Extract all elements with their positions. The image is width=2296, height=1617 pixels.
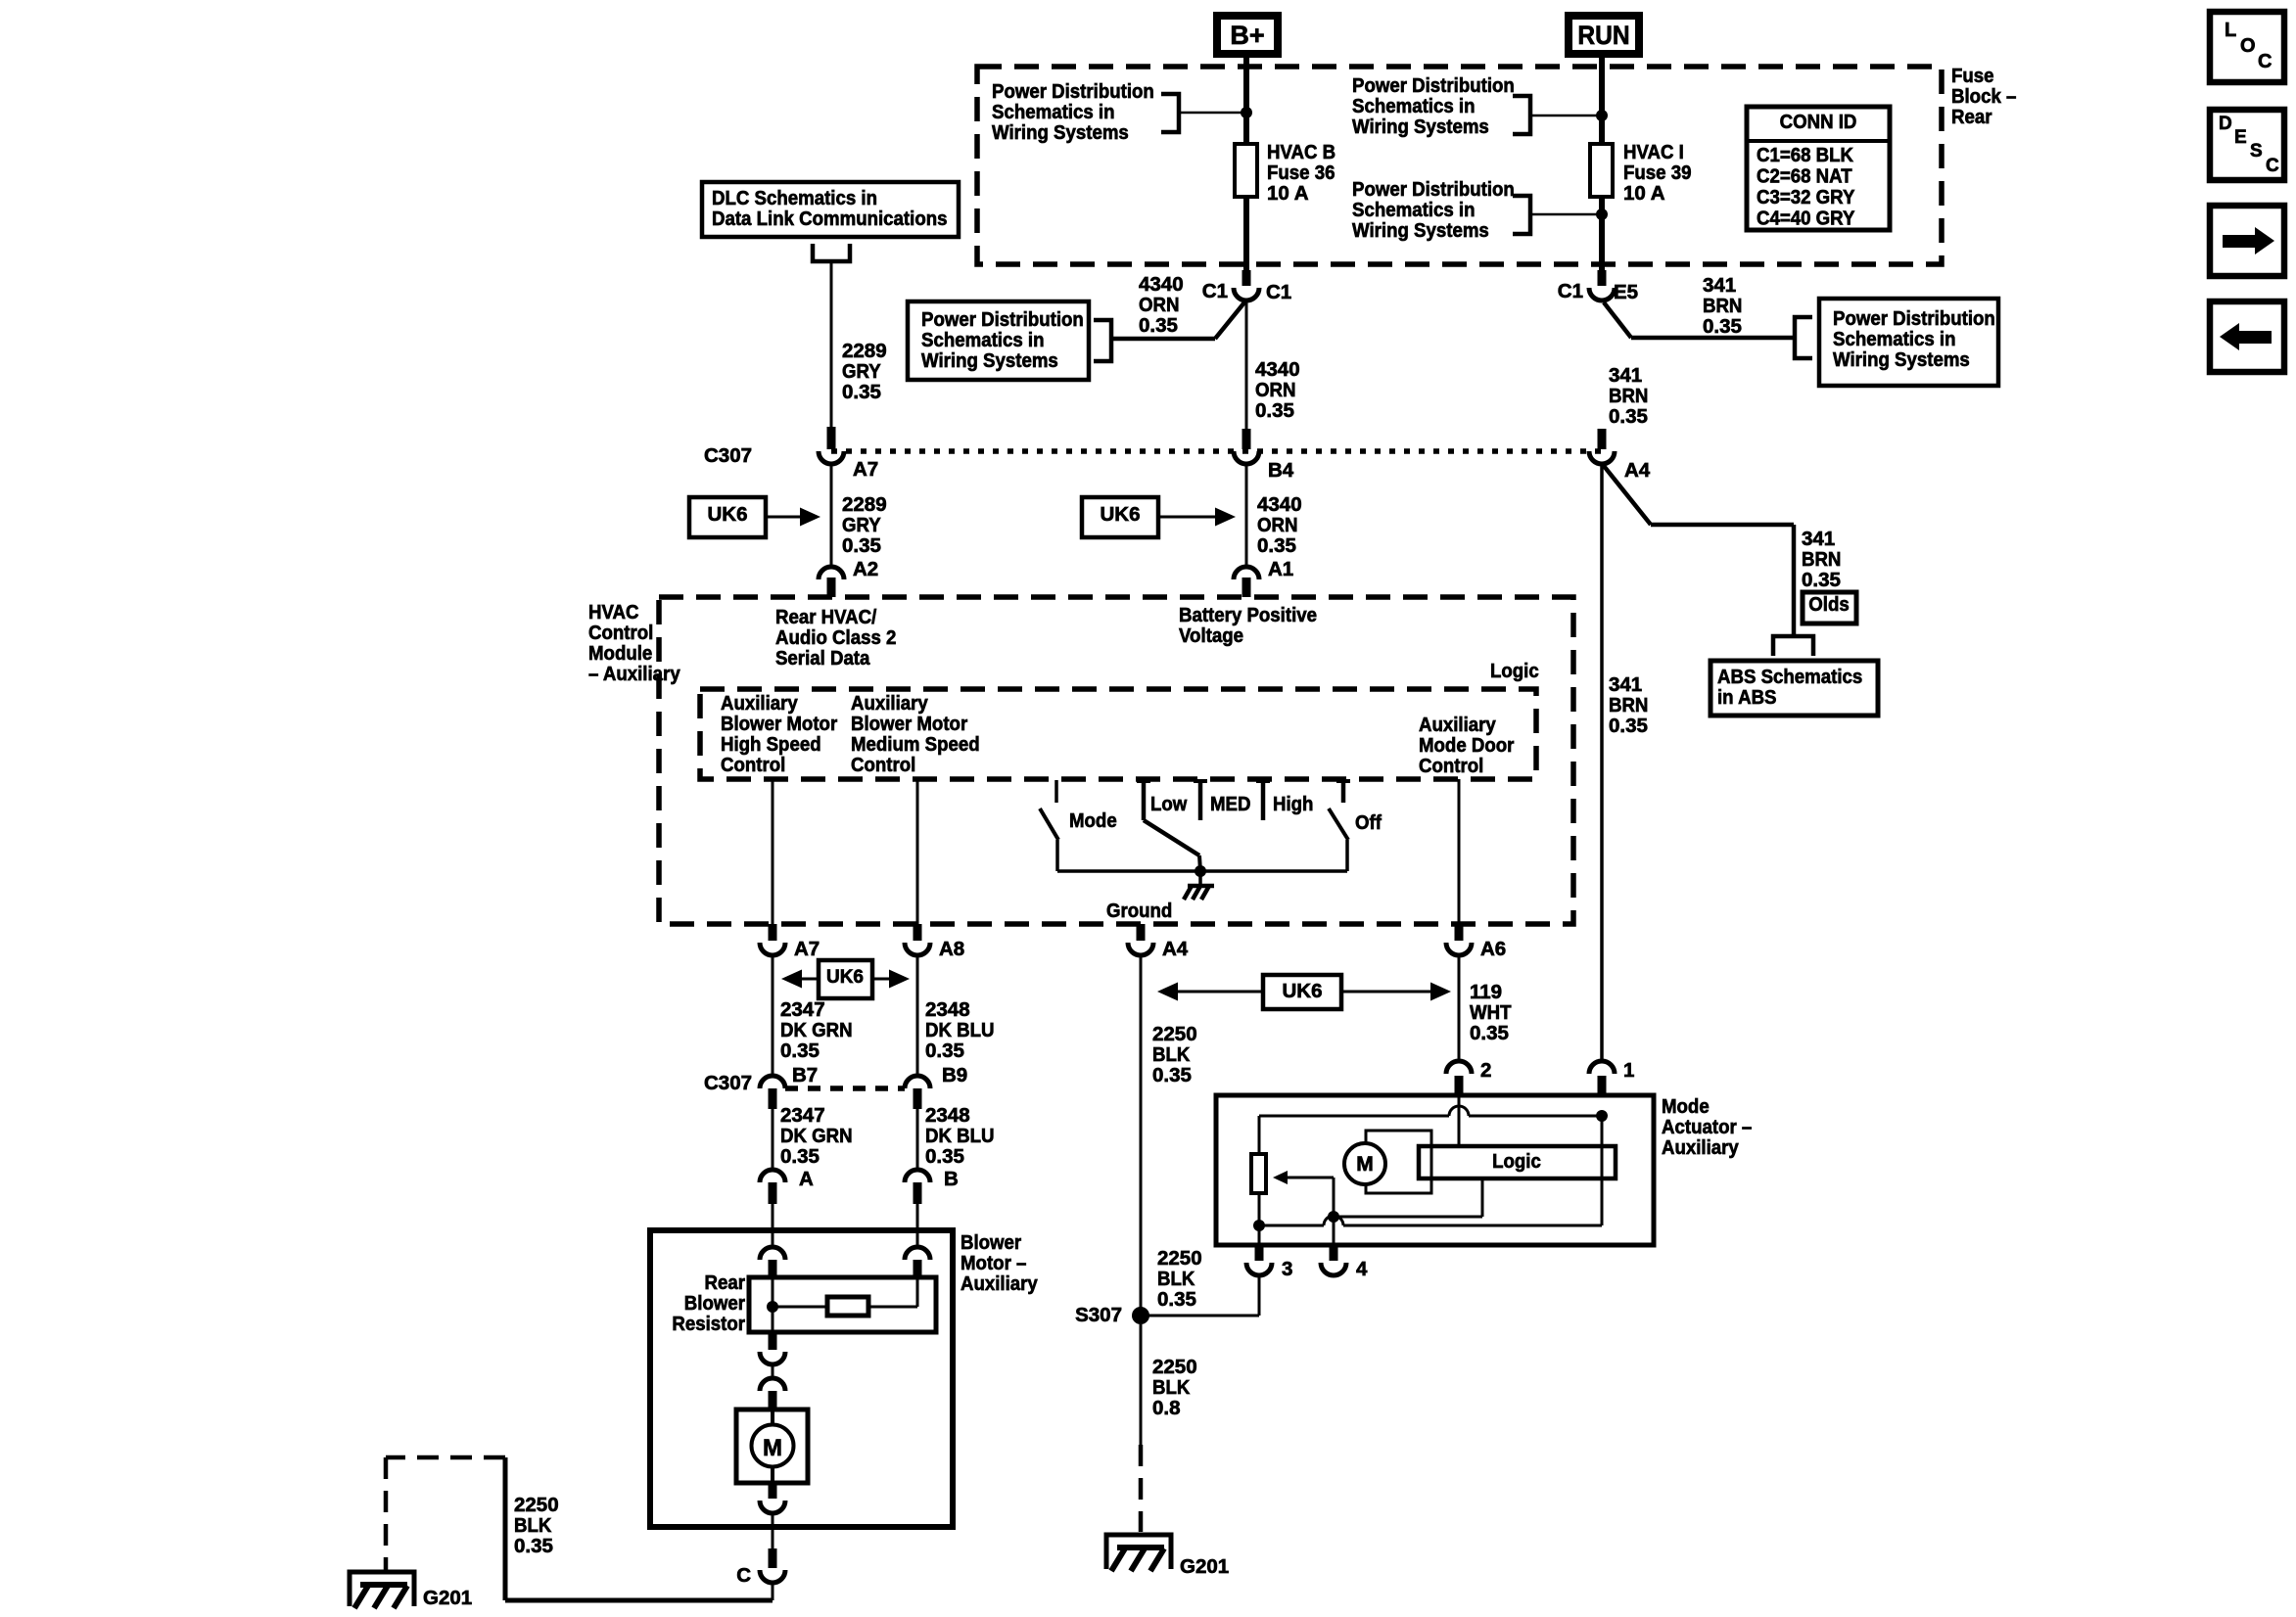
- svg-text:0.35: 0.35: [1703, 315, 1742, 338]
- svg-text:2289: 2289: [842, 493, 887, 516]
- svg-text:119: 119: [1470, 981, 1502, 1003]
- svg-text:MED: MED: [1210, 793, 1251, 815]
- svg-text:Blower Motor: Blower Motor: [721, 713, 837, 735]
- svg-text:in ABS: in ABS: [1717, 686, 1777, 709]
- svg-text:Battery Positive: Battery Positive: [1179, 604, 1317, 626]
- svg-text:Blower: Blower: [961, 1231, 1021, 1254]
- svg-text:Auxiliary: Auxiliary: [851, 692, 928, 715]
- svg-text:Auxiliary: Auxiliary: [1419, 714, 1496, 736]
- svg-text:Fuse: Fuse: [1951, 65, 1994, 87]
- svg-text:Off: Off: [1355, 811, 1382, 834]
- svg-text:ORN: ORN: [1139, 294, 1180, 316]
- svg-text:A1: A1: [1268, 558, 1293, 580]
- svg-text:UK6: UK6: [707, 503, 747, 526]
- svg-text:Fuse 39: Fuse 39: [1623, 162, 1692, 184]
- svg-text:Power Distribution: Power Distribution: [992, 80, 1154, 103]
- svg-text:0.35: 0.35: [925, 1039, 964, 1062]
- svg-text:ABS Schematics: ABS Schematics: [1717, 666, 1862, 688]
- svg-text:0.35: 0.35: [780, 1145, 820, 1168]
- svg-text:4340: 4340: [1139, 273, 1184, 296]
- svg-text:D: D: [2219, 114, 2232, 134]
- svg-text:C307: C307: [704, 444, 752, 467]
- svg-text:Schematics in: Schematics in: [992, 101, 1115, 123]
- svg-text:Audio Class 2: Audio Class 2: [775, 626, 896, 649]
- svg-text:A4: A4: [1162, 938, 1189, 960]
- svg-text:1: 1: [1623, 1059, 1634, 1082]
- svg-text:0.35: 0.35: [1255, 399, 1294, 422]
- svg-text:B4: B4: [1268, 459, 1294, 482]
- svg-text:BRN: BRN: [1609, 694, 1648, 716]
- svg-text:Power Distribution: Power Distribution: [1352, 74, 1515, 97]
- svg-text:10 A: 10 A: [1267, 182, 1309, 205]
- svg-text:O: O: [2240, 35, 2256, 57]
- svg-text:B: B: [944, 1168, 959, 1190]
- svg-text:2347: 2347: [780, 1104, 825, 1127]
- svg-text:C: C: [736, 1564, 751, 1587]
- svg-text:Resistor: Resistor: [672, 1313, 745, 1335]
- svg-text:0.35: 0.35: [1152, 1064, 1192, 1086]
- svg-text:Blower: Blower: [684, 1292, 745, 1315]
- svg-text:C: C: [2266, 156, 2279, 176]
- svg-text:HVAC B: HVAC B: [1267, 141, 1335, 163]
- svg-text:0.35: 0.35: [514, 1535, 553, 1557]
- svg-text:HVAC: HVAC: [588, 601, 639, 624]
- svg-text:BLK: BLK: [1152, 1043, 1190, 1066]
- svg-text:A7: A7: [794, 938, 820, 960]
- svg-text:0.35: 0.35: [925, 1145, 964, 1168]
- svg-text:BRN: BRN: [1703, 295, 1742, 317]
- svg-text:UK6: UK6: [826, 967, 864, 988]
- svg-text:341: 341: [1609, 673, 1642, 696]
- svg-text:B9: B9: [942, 1064, 967, 1086]
- svg-text:A8: A8: [939, 938, 964, 960]
- svg-text:Auxiliary: Auxiliary: [721, 692, 798, 715]
- svg-text:Mode: Mode: [1662, 1095, 1710, 1118]
- svg-text:Schematics in: Schematics in: [1352, 199, 1476, 221]
- svg-text:341: 341: [1609, 364, 1642, 387]
- svg-text:BLK: BLK: [1157, 1268, 1195, 1290]
- svg-text:BLK: BLK: [1152, 1376, 1190, 1399]
- svg-text:WHT: WHT: [1470, 1001, 1512, 1024]
- svg-text:High: High: [1273, 793, 1313, 815]
- svg-text:Ground: Ground: [1106, 900, 1172, 922]
- svg-text:ORN: ORN: [1255, 379, 1296, 401]
- svg-text:CONN ID: CONN ID: [1780, 111, 1857, 133]
- svg-text:G201: G201: [1180, 1555, 1229, 1578]
- svg-text:2348: 2348: [925, 1104, 970, 1127]
- svg-text:BRN: BRN: [1802, 548, 1841, 571]
- svg-text:A: A: [799, 1168, 814, 1190]
- svg-text:2250: 2250: [1157, 1247, 1202, 1270]
- svg-text:DK GRN: DK GRN: [780, 1019, 853, 1041]
- svg-text:C1: C1: [1558, 280, 1583, 302]
- svg-text:Voltage: Voltage: [1179, 624, 1243, 647]
- svg-text:DK BLU: DK BLU: [925, 1125, 995, 1147]
- svg-text:DK GRN: DK GRN: [780, 1125, 853, 1147]
- svg-text:Mode Door: Mode Door: [1419, 734, 1514, 757]
- svg-text:Olds: Olds: [1808, 593, 1850, 616]
- svg-text:3: 3: [1282, 1258, 1292, 1280]
- svg-text:Block –: Block –: [1951, 85, 2016, 108]
- svg-text:Power Distribution: Power Distribution: [1833, 307, 1995, 330]
- svg-text:RUN: RUN: [1577, 21, 1629, 50]
- svg-text:2250: 2250: [1152, 1023, 1197, 1045]
- svg-text:UK6: UK6: [1282, 980, 1322, 1002]
- svg-text:Wiring Systems: Wiring Systems: [992, 121, 1129, 144]
- svg-text:High Speed: High Speed: [721, 733, 821, 756]
- svg-text:B+: B+: [1230, 21, 1264, 50]
- svg-text:0.35: 0.35: [842, 534, 881, 557]
- svg-text:341: 341: [1802, 528, 1835, 550]
- svg-text:C: C: [2258, 51, 2272, 72]
- svg-text:0.35: 0.35: [1139, 314, 1178, 337]
- svg-text:0.35: 0.35: [1470, 1022, 1509, 1044]
- svg-text:B7: B7: [792, 1064, 818, 1086]
- svg-text:A2: A2: [853, 558, 878, 580]
- svg-text:341: 341: [1703, 274, 1736, 297]
- svg-text:4340: 4340: [1255, 358, 1300, 381]
- svg-text:DK BLU: DK BLU: [925, 1019, 995, 1041]
- svg-text:4: 4: [1356, 1258, 1368, 1280]
- svg-text:GRY: GRY: [842, 360, 881, 383]
- svg-text:0.35: 0.35: [780, 1039, 820, 1062]
- svg-text:Schematics in: Schematics in: [921, 329, 1045, 351]
- svg-text:GRY: GRY: [842, 514, 881, 536]
- svg-text:Auxiliary: Auxiliary: [961, 1272, 1038, 1295]
- svg-text:0.35: 0.35: [1802, 569, 1841, 591]
- svg-text:Schematics in: Schematics in: [1833, 328, 1956, 350]
- svg-text:Auxiliary: Auxiliary: [1662, 1136, 1739, 1159]
- svg-text:0.35: 0.35: [1157, 1288, 1196, 1311]
- svg-text:– Auxiliary: – Auxiliary: [588, 663, 680, 685]
- svg-text:Control: Control: [851, 754, 915, 776]
- svg-text:Power Distribution: Power Distribution: [1352, 178, 1515, 201]
- svg-text:0.35: 0.35: [1257, 534, 1296, 557]
- svg-text:E5: E5: [1614, 281, 1638, 303]
- svg-text:10 A: 10 A: [1623, 182, 1665, 205]
- svg-text:L: L: [2225, 20, 2236, 41]
- svg-text:Wiring Systems: Wiring Systems: [921, 349, 1058, 372]
- svg-text:Logic: Logic: [1490, 660, 1539, 682]
- svg-text:0.35: 0.35: [1609, 405, 1648, 428]
- svg-text:Blower Motor: Blower Motor: [851, 713, 967, 735]
- svg-text:0.35: 0.35: [1609, 715, 1648, 737]
- svg-text:BLK: BLK: [514, 1514, 551, 1537]
- svg-text:C2=68 NAT: C2=68 NAT: [1757, 165, 1852, 188]
- svg-text:C1: C1: [1266, 281, 1291, 303]
- svg-text:S: S: [2250, 141, 2263, 162]
- svg-text:A7: A7: [853, 458, 878, 481]
- svg-text:G201: G201: [423, 1587, 472, 1609]
- svg-text:Data Link Communications: Data Link Communications: [712, 208, 948, 230]
- svg-text:Schematics in: Schematics in: [1352, 95, 1476, 117]
- svg-text:Medium Speed: Medium Speed: [851, 733, 980, 756]
- svg-text:Rear: Rear: [1951, 106, 1992, 128]
- svg-text:C3=32 GRY: C3=32 GRY: [1757, 186, 1855, 208]
- svg-text:Rear: Rear: [705, 1271, 746, 1294]
- svg-text:C4=40 GRY: C4=40 GRY: [1757, 208, 1855, 230]
- svg-text:Wiring Systems: Wiring Systems: [1833, 348, 1970, 371]
- svg-text:Motor –: Motor –: [961, 1252, 1026, 1274]
- svg-text:Control: Control: [588, 622, 653, 644]
- svg-text:A6: A6: [1480, 938, 1506, 960]
- svg-text:Wiring Systems: Wiring Systems: [1352, 219, 1489, 242]
- svg-text:Wiring Systems: Wiring Systems: [1352, 115, 1489, 138]
- svg-text:Mode: Mode: [1069, 809, 1117, 832]
- svg-text:Module: Module: [588, 642, 652, 665]
- svg-text:2: 2: [1480, 1059, 1491, 1082]
- svg-text:BRN: BRN: [1609, 385, 1648, 407]
- svg-text:Power Distribution: Power Distribution: [921, 308, 1084, 331]
- svg-text:4340: 4340: [1257, 493, 1302, 516]
- svg-text:2289: 2289: [842, 340, 887, 362]
- svg-text:Fuse 36: Fuse 36: [1267, 162, 1335, 184]
- svg-text:S307: S307: [1075, 1304, 1122, 1326]
- svg-text:E: E: [2234, 127, 2247, 148]
- svg-text:Rear HVAC/: Rear HVAC/: [775, 606, 877, 628]
- svg-text:C1=68 BLK: C1=68 BLK: [1757, 144, 1853, 166]
- svg-text:0.8: 0.8: [1152, 1397, 1181, 1419]
- svg-text:C1: C1: [1202, 280, 1228, 302]
- svg-text:2347: 2347: [780, 998, 825, 1021]
- svg-text:Actuator –: Actuator –: [1662, 1116, 1752, 1138]
- svg-text:Control: Control: [721, 754, 785, 776]
- svg-text:M: M: [763, 1435, 782, 1461]
- svg-text:C307: C307: [704, 1072, 752, 1094]
- svg-text:Serial Data: Serial Data: [775, 647, 870, 670]
- svg-text:UK6: UK6: [1100, 503, 1140, 526]
- svg-text:DLC Schematics in: DLC Schematics in: [712, 187, 877, 209]
- svg-text:M: M: [1356, 1153, 1374, 1176]
- svg-text:Low: Low: [1150, 793, 1187, 815]
- svg-text:0.35: 0.35: [842, 381, 881, 403]
- svg-text:A4: A4: [1624, 459, 1651, 482]
- svg-text:2250: 2250: [514, 1494, 559, 1516]
- svg-text:HVAC I: HVAC I: [1623, 141, 1684, 163]
- svg-text:Control: Control: [1419, 755, 1483, 777]
- svg-text:2348: 2348: [925, 998, 970, 1021]
- svg-text:ORN: ORN: [1257, 514, 1298, 536]
- svg-text:Logic: Logic: [1492, 1150, 1541, 1173]
- svg-text:2250: 2250: [1152, 1356, 1197, 1378]
